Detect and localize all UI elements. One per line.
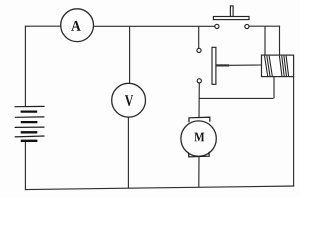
wire coil bottom lead horizontal to motor branch [199,97,273,99]
wire left vertical upper (corner to battery) [24,26,26,107]
wire left vertical lower (battery to bottom corner) [24,141,26,190]
wire top-left horizontal (battery + to ammeter) [25,25,61,27]
coil hatch line 3 [269,56,272,76]
battery long plate 1 [15,105,45,107]
battery long plate 3 [15,126,45,128]
wire right vertical from top-right corner down to coil top [279,26,281,56]
relay lower contact [197,79,201,83]
coil hatch line 4 [279,56,282,76]
wire motor bottom lead [198,157,200,188]
motor M [181,117,216,157]
armature bar [212,47,216,84]
push-button stem [230,6,233,17]
motor bottom brush [189,152,210,157]
battery short plate 1 [21,110,38,112]
coil hatch line 7 [286,56,289,76]
battery long plate 2 [15,116,45,118]
relay coil (electromagnet) [262,55,294,77]
push-button switch [213,6,249,29]
wire ammeter to push-button left contact [94,25,215,27]
wire lower relay contact down to motor top brush [198,83,200,118]
push-button bar [213,17,249,20]
wire right vertical (coil to bottom-right corner) [293,77,295,187]
wire top wire down to upper relay contact [198,26,200,48]
wire push-button right contact to top-right corner [249,25,280,27]
wire voltmeter bottom lead [127,117,129,189]
battery short plate 4 [21,140,38,142]
battery short plate 3 [21,131,38,133]
wire bottom horizontal [25,186,294,190]
ammeter A [61,9,94,42]
armature rod (thick link) [216,64,229,66]
battery short plate 2 [21,121,38,123]
motor top brush [189,117,210,122]
armature link wire to coil [229,64,261,66]
coil hatch line 6 [284,56,287,76]
wire coil bottom lead vertical [273,77,275,99]
coil hatch line 5 [282,56,285,76]
relay upper contact [197,48,201,52]
push-button left contact [215,24,219,28]
coil hatch line 2 [267,56,270,76]
coil hatch line 1 [265,56,268,76]
voltmeter V [112,83,146,117]
battery B (4 cells) [15,106,45,140]
wire voltmeter top lead [129,26,131,83]
battery long plate 4 [15,135,45,138]
wire coil top-left lead up to top wire [264,26,266,55]
push-button right contact [245,24,249,28]
